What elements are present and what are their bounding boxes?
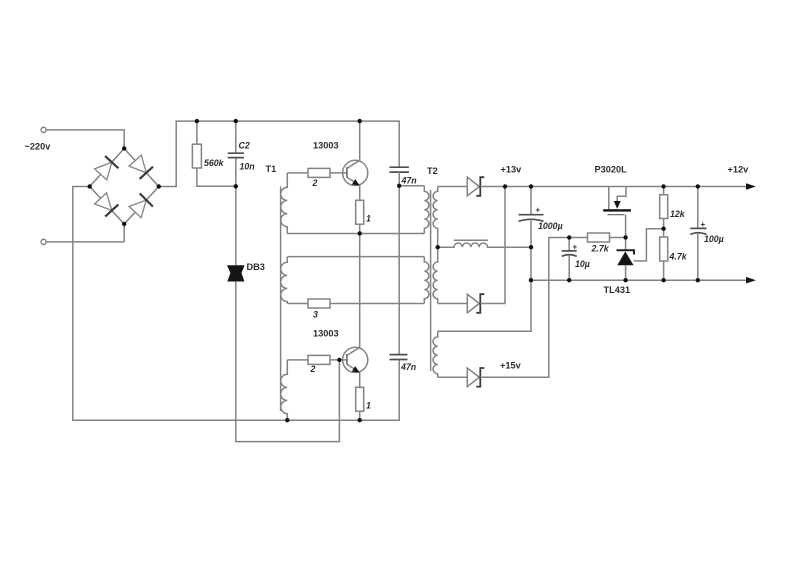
- terminal: AC input bottom: [41, 239, 46, 244]
- svg-text:3: 3: [313, 310, 318, 320]
- svg-text:2: 2: [312, 178, 318, 188]
- capacitor 1000u: [530, 187, 532, 248]
- diac DB3: [227, 265, 245, 281]
- node: top rail 12k: [661, 184, 665, 188]
- diode D3: [467, 368, 484, 387]
- resistor 1 (upper emitter): [356, 200, 364, 224]
- wire: resistor 1 to emitter junction line: [359, 224, 361, 233]
- svg-text:12k: 12k: [670, 209, 686, 219]
- T1 primary loop top wire: [287, 256, 424, 258]
- T2 secondary winding 2: [433, 247, 438, 303]
- svg-text:P3020L: P3020L: [595, 165, 628, 175]
- svg-text:100µ: 100µ: [704, 234, 724, 244]
- wire: TL431 ref to divider junction: [634, 229, 664, 261]
- node: middle rail left: [436, 245, 440, 249]
- svg-text:4.7k: 4.7k: [669, 252, 688, 262]
- resistor 12k: [663, 187, 665, 229]
- bridge rectifier diamond wires: [90, 149, 159, 225]
- svg-text:~220v: ~220v: [25, 141, 52, 151]
- capacitor C2: [235, 121, 237, 265]
- wire: T1 upper winding to resistor 2: [287, 172, 308, 174]
- node: DB3 to base Q2: [337, 358, 341, 362]
- node: feedback TL431 gate: [623, 235, 627, 239]
- capacitor 47n (lower): [390, 354, 408, 356]
- svg-text:TL431: TL431: [604, 285, 631, 295]
- node: middle rail right: [529, 245, 533, 249]
- node: feedback 10u: [567, 235, 571, 239]
- node: T1 lower winding bottom: [285, 418, 289, 422]
- diode D2: [467, 294, 484, 313]
- T2 primary winding B: [424, 257, 429, 304]
- wire: stub from cap midpoint to T2 primary winding A top: [399, 185, 424, 187]
- wire: bridge left node to DC minus rail (left vertical and bottom line): [73, 187, 399, 421]
- wire: common vertical from middle rail down to +15v winding top: [438, 247, 531, 331]
- svg-text:+: +: [573, 243, 578, 252]
- node: bridge bottom: [122, 222, 126, 226]
- wire: resistor 1' to bottom line: [359, 411, 361, 420]
- wire: bottom output rail: [531, 279, 746, 281]
- wire: resistor 2' to lower transistor base: [330, 359, 347, 361]
- node: top rail 100u: [696, 184, 700, 188]
- capacitor 10u: [568, 238, 570, 281]
- bridge diode D-b (top node to right node): [129, 155, 153, 179]
- wire: bridge bottom node down: [123, 224, 125, 242]
- resistor 3: [308, 299, 330, 308]
- svg-text:T1: T1: [266, 164, 277, 174]
- inductor L1 core: [454, 239, 488, 241]
- resistor 560k: [197, 121, 236, 186]
- arrow: +12v output top: [746, 183, 756, 190]
- wire: half-bridge capacitor midpoint vertical: [398, 172, 400, 355]
- resistor 2' (lower base): [308, 355, 330, 364]
- T1 middle winding (primary): [281, 257, 288, 304]
- svg-text:T2: T2: [427, 166, 438, 176]
- node: bottom rail 100u: [696, 278, 700, 282]
- transformer T2 core: [430, 190, 432, 371]
- svg-text:+15v: +15v: [500, 361, 522, 371]
- wire: +13v rail from D1 to +12v arrow: [480, 186, 746, 188]
- node: bus C2: [234, 119, 238, 123]
- svg-text:1: 1: [366, 401, 371, 411]
- node: bus collector Q1: [358, 119, 362, 123]
- svg-text:2: 2: [310, 364, 316, 374]
- T1 winding 2' (lower feedback): [281, 360, 288, 420]
- TL431 U1: [617, 238, 635, 281]
- node: C2 bottom: [234, 184, 238, 188]
- wire: secondary 2 bottom to diode D2: [438, 303, 468, 305]
- transistor Q2 13003 (lower): [343, 234, 368, 388]
- svg-text:10µ: 10µ: [575, 259, 590, 269]
- wire: D2 to +13v rail: [480, 187, 505, 304]
- T2 primary winding A: [424, 186, 429, 234]
- svg-text:47n: 47n: [401, 176, 417, 186]
- node: bus 560k: [195, 119, 199, 123]
- wire: top AC input to bridge top: [46, 130, 124, 149]
- terminal: AC input top: [41, 127, 46, 132]
- svg-text:560k: 560k: [204, 158, 225, 168]
- wire: +15v line right and up to feedback node: [480, 238, 625, 378]
- svg-text:1000µ: 1000µ: [538, 221, 563, 231]
- T1 winding 2 (upper feedback): [281, 173, 288, 234]
- wire: secondary 1 top to rectifier diode D1: [438, 186, 468, 188]
- svg-text:+12v: +12v: [728, 165, 750, 175]
- svg-text:+: +: [701, 220, 706, 229]
- T2 secondary winding 1: [433, 187, 438, 248]
- resistor 2.7k: [588, 233, 610, 242]
- node: bottom rail 4.7k: [661, 278, 665, 282]
- node: bridge right: [157, 184, 161, 188]
- capacitor 100u: [697, 187, 699, 281]
- node: emitter Q2 bottom line: [358, 418, 362, 422]
- T2 secondary winding 3 (+15v): [433, 331, 438, 377]
- wire: resistor 2 to upper transistor base: [330, 172, 347, 174]
- arrow: output bottom: [746, 277, 756, 284]
- T1 primary loop bottom wire: [287, 303, 424, 305]
- bridge diode D-c (left node to bottom node): [95, 193, 119, 217]
- wire: bottom AC input to bridge bottom: [46, 241, 124, 243]
- svg-text:DB3: DB3: [247, 262, 265, 272]
- node: emitter line Q1: [358, 231, 362, 235]
- svg-text:2.7k: 2.7k: [591, 244, 610, 254]
- svg-text:47n: 47n: [400, 362, 416, 372]
- resistor 1' (lower emitter): [356, 387, 364, 411]
- svg-text:C2: C2: [239, 141, 250, 151]
- wire: DB3 down, right, up to lower transistor base: [236, 282, 340, 442]
- svg-text:13003: 13003: [313, 329, 339, 339]
- node: half-bridge cap midpoint: [397, 184, 401, 188]
- capacitor 47n (upper): [390, 166, 409, 168]
- node: +13v 1000u: [529, 184, 533, 188]
- node: bridge left: [88, 184, 92, 188]
- inductor L1 and middle rail: [438, 243, 531, 247]
- node: bridge top: [122, 146, 126, 150]
- node: bottom rail 10u: [567, 278, 571, 282]
- wire: emitter junction line y=233.5: [287, 233, 424, 235]
- node: bottom rail TL431: [623, 278, 627, 282]
- diode D1: [467, 177, 484, 196]
- bridge diode D-d (bottom node to right node): [129, 193, 153, 217]
- bridge diode D-a (left node to top node): [95, 156, 119, 180]
- resistor 4.7k: [663, 229, 665, 281]
- svg-text:13003: 13003: [313, 141, 339, 151]
- wire: T1 lower winding to resistor 2': [287, 359, 308, 361]
- resistor 2 (upper base): [308, 168, 330, 177]
- svg-text:10n: 10n: [240, 162, 255, 172]
- transistor Q1 13003 (upper): [343, 121, 368, 200]
- svg-text:1: 1: [366, 214, 371, 224]
- svg-text:+: +: [536, 206, 541, 215]
- node: divider 12k/4.7k: [661, 227, 665, 231]
- node: +13v diode join: [503, 184, 507, 188]
- MOSFET P3020L: [603, 187, 631, 238]
- transformer T1 core: [280, 187, 282, 412]
- svg-text:+13v: +13v: [501, 165, 523, 175]
- node: bottom rail 1000u: [529, 278, 533, 282]
- wire: bridge right node up to DC plus bus: [159, 121, 399, 186]
- wire: +15v winding bottom to diode D3: [438, 376, 468, 378]
